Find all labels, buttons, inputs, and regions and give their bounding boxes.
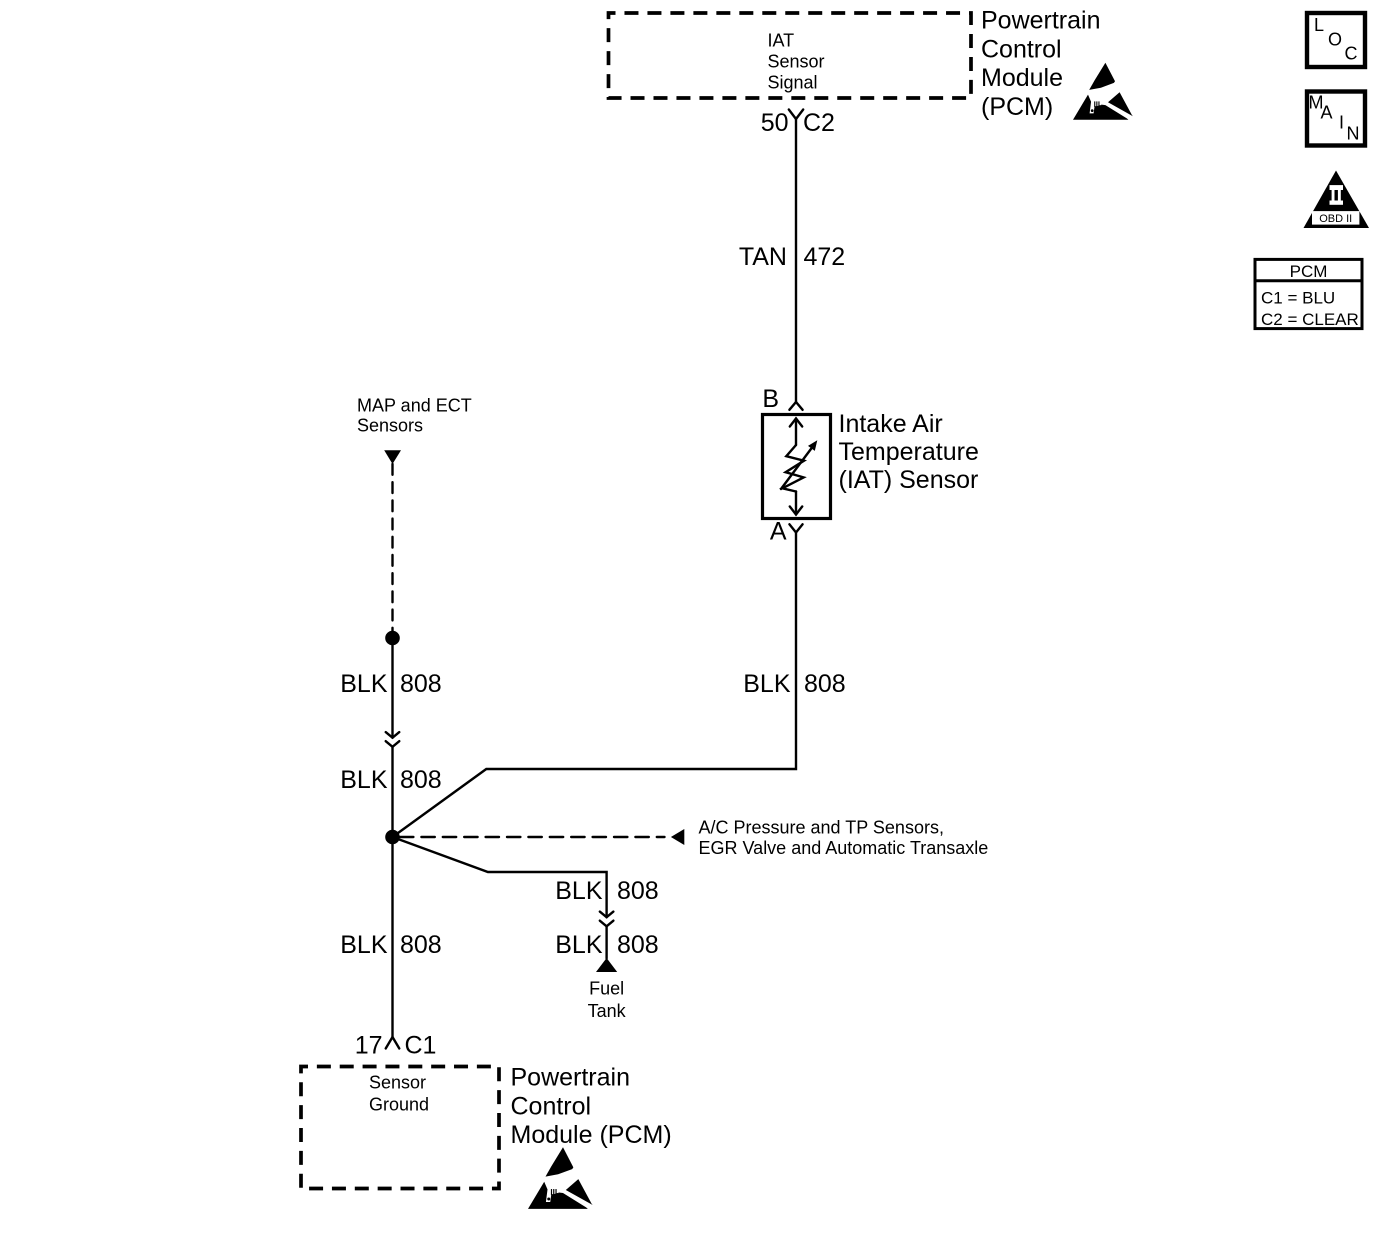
- label: Powertrain Control Module (PCM) bottom: [511, 1064, 672, 1150]
- svg-text:MAP and ECT: MAP and ECT: [357, 396, 472, 416]
- svg-text:808: 808: [400, 931, 442, 959]
- svg-text:C1: C1: [405, 1032, 437, 1060]
- connector 50 C2: [761, 109, 835, 137]
- label: TAN 472: [739, 243, 845, 271]
- label: Fuel Tank: [588, 979, 627, 1022]
- svg-text:OBD II: OBD II: [1319, 213, 1352, 225]
- pin B connector: [762, 385, 802, 413]
- label: Intake Air Temperature (IAT) Sensor: [839, 410, 979, 494]
- label: A/C Pressure and TP Sensors, EGR Valve and Automatic Transaxle: [699, 818, 989, 859]
- label: Powertrain Control Module (PCM) top: [981, 7, 1101, 121]
- svg-text:Module (PCM): Module (PCM): [511, 1121, 672, 1149]
- wire fuel branch lower segment: [605, 926, 607, 958]
- connector 17 C1: [355, 1032, 437, 1060]
- OBD II symbol: [1304, 171, 1370, 229]
- svg-text:Module: Module: [981, 64, 1063, 92]
- wire BLK 808 left middle segment: [391, 747, 393, 837]
- svg-text:C: C: [1345, 44, 1358, 64]
- inline connector chevrons (fuel branch): [600, 912, 614, 927]
- wire BLK 808 upper left segment: [391, 638, 393, 738]
- svg-text:808: 808: [617, 931, 659, 959]
- arrow from MAP and ECT sensors: [384, 450, 401, 464]
- svg-text:Sensor: Sensor: [768, 52, 825, 72]
- label: BLK 808 (left upper): [340, 670, 441, 698]
- junction splice dot: [385, 830, 400, 845]
- MAIN code box: [1307, 92, 1365, 146]
- svg-text:O: O: [1328, 30, 1342, 50]
- svg-text:Control: Control: [981, 35, 1062, 63]
- svg-text:Signal: Signal: [768, 73, 818, 93]
- ESD symbol bottom: [528, 1147, 593, 1209]
- wire BLK 808 to PCM pin 17: [391, 837, 393, 1037]
- svg-text:Control: Control: [511, 1092, 592, 1120]
- LOC code box: [1307, 13, 1365, 67]
- svg-text:EGR Valve and Automatic Transa: EGR Valve and Automatic Transaxle: [699, 838, 989, 858]
- fuel tank arrow: [596, 958, 617, 972]
- svg-text:472: 472: [804, 243, 846, 271]
- svg-text:808: 808: [400, 670, 442, 698]
- label: IAT Sensor Signal: [768, 31, 825, 93]
- svg-text:IAT: IAT: [768, 31, 795, 51]
- svg-text:Sensor: Sensor: [369, 1073, 426, 1093]
- label: BLK 808 (left middle): [340, 766, 441, 794]
- svg-text:Ground: Ground: [369, 1094, 429, 1114]
- svg-text:I: I: [1339, 113, 1344, 133]
- wire to fuel tank branch: [393, 837, 607, 917]
- svg-text:Powertrain: Powertrain: [981, 7, 1101, 35]
- label: BLK 808 (left lower): [340, 931, 441, 959]
- IAT sensor box: [763, 415, 831, 519]
- svg-text:50: 50: [761, 109, 789, 137]
- svg-text:TAN: TAN: [739, 243, 787, 271]
- svg-text:Powertrain: Powertrain: [511, 1064, 631, 1092]
- svg-text:BLK: BLK: [555, 931, 603, 959]
- PCM bottom box (Sensor Ground) dashed outline: [301, 1067, 499, 1189]
- svg-text:Tank: Tank: [588, 1001, 627, 1021]
- svg-text:17: 17: [355, 1032, 383, 1060]
- svg-text:(PCM): (PCM): [981, 93, 1053, 121]
- PCM top box (IAT Sensor Signal) dashed outline: [609, 13, 972, 98]
- svg-text:808: 808: [804, 670, 846, 698]
- svg-text:B: B: [762, 385, 779, 413]
- PCM connector legend box: [1255, 259, 1362, 329]
- svg-text:Sensors: Sensors: [357, 416, 423, 436]
- label: Sensor Ground: [369, 1073, 429, 1115]
- svg-text:BLK: BLK: [743, 670, 791, 698]
- svg-text:L: L: [1314, 15, 1324, 35]
- svg-text:C2: C2: [803, 109, 835, 137]
- wire BLK 808 from IAT sensor to junction: [393, 533, 797, 838]
- splice dot: [385, 631, 400, 646]
- dashed wire to A/C pressure and TP sensors: [400, 836, 665, 838]
- label: BLK 808 (fuel branch lower): [555, 931, 658, 959]
- svg-text:C2 = CLEAR: C2 = CLEAR: [1261, 310, 1359, 329]
- svg-text:BLK: BLK: [340, 670, 388, 698]
- svg-text:N: N: [1347, 124, 1360, 144]
- arrowhead to A/C pressure: [671, 829, 684, 845]
- wire TAN 472 (PCM to IAT sensor): [795, 119, 797, 402]
- svg-text:808: 808: [617, 877, 659, 905]
- svg-text:BLK: BLK: [340, 766, 388, 794]
- svg-text:(IAT) Sensor: (IAT) Sensor: [839, 466, 979, 494]
- svg-text:808: 808: [400, 766, 442, 794]
- thermistor symbol: [781, 419, 817, 515]
- svg-text:A: A: [770, 518, 787, 546]
- svg-text:A/C Pressure and TP Sensors,: A/C Pressure and TP Sensors,: [699, 818, 944, 838]
- dashed wire from MAP and ECT sensors: [391, 464, 393, 631]
- label: BLK 808 (IAT branch): [743, 670, 845, 698]
- svg-text:BLK: BLK: [340, 931, 388, 959]
- svg-text:Temperature: Temperature: [839, 438, 979, 466]
- svg-text:PCM: PCM: [1290, 262, 1328, 281]
- pin A connector: [770, 518, 803, 546]
- svg-text:Fuel: Fuel: [589, 979, 624, 999]
- inline connector chevrons (left wire): [386, 732, 400, 747]
- label: MAP and ECT Sensors: [357, 396, 472, 436]
- svg-text:C1 = BLU: C1 = BLU: [1261, 289, 1335, 308]
- svg-text:BLK: BLK: [555, 877, 603, 905]
- svg-text:Intake Air: Intake Air: [839, 410, 943, 438]
- ESD symbol top: [1073, 63, 1133, 120]
- svg-text:A: A: [1321, 103, 1333, 123]
- label: BLK 808 (fuel branch upper): [555, 877, 658, 905]
